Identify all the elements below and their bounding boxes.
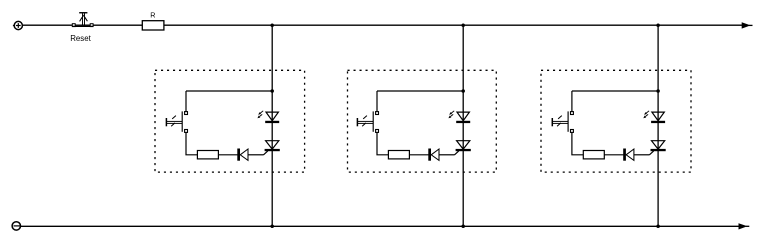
vertical rail 3 — [657, 25, 659, 226]
resistor R — [142, 21, 164, 30]
vertical rail 2 — [462, 25, 464, 226]
diode (cell 3 gate diode, cathode bar left) — [623, 149, 634, 161]
cell 2 enclosure (dotted box) — [348, 70, 497, 172]
wire: cell 2 SCR gate lead (diagonal) — [454, 151, 458, 155]
wire: cell 3 from button bottom terminal down and right to resistor — [572, 132, 583, 154]
cell 3 enclosure (dotted box) — [541, 70, 691, 172]
LED (cell 1, on rail) — [257, 111, 279, 123]
wire: cell 1 left vertical (to button top terminal) — [185, 91, 187, 112]
cell 1 enclosure (dotted box) — [155, 70, 305, 172]
wire: cell 1 top horizontal (button to rail) — [186, 90, 272, 92]
wire: cell 2 left vertical (to button top terminal) — [376, 91, 378, 112]
terminal + (positive supply) — [13, 21, 22, 29]
junction: top rail / rail 2 — [461, 23, 465, 27]
wire: cell 2 top horizontal (button to rail) — [377, 90, 463, 92]
junction: bottom rail / rail 2 — [461, 225, 465, 229]
wire: cell 3 top horizontal (button to rail) — [572, 90, 658, 92]
svg-text:R: R — [150, 10, 155, 19]
wire: cell 1 diode to SCR gate — [248, 154, 263, 156]
push-button S3 (cell 3) — [552, 111, 573, 132]
LED (cell 2, on rail) — [448, 111, 470, 123]
junction: top rail / rail 1 — [270, 23, 274, 27]
thyristor SCR (cell 1, on rail) — [265, 141, 280, 152]
push-button S1 (cell 1) — [166, 111, 187, 132]
vertical rail 1 — [271, 25, 273, 226]
wire: cell 2 diode to SCR gate — [439, 154, 454, 156]
diode (cell 2 gate diode, cathode bar left) — [428, 149, 439, 161]
thyristor SCR (cell 2, on rail) — [456, 141, 471, 152]
LED (cell 3, on rail) — [643, 111, 665, 123]
top rail wire — [22, 24, 742, 26]
push-button Reset — [72, 13, 93, 27]
resistor (cell 2 gate resistor) — [388, 151, 409, 159]
svg-text:Reset: Reset — [70, 34, 91, 43]
junction: bottom rail / rail 3 — [656, 225, 660, 229]
junction: cell 2 top wire to rail — [461, 89, 465, 93]
thyristor SCR (cell 3, on rail) — [651, 141, 666, 152]
wire: cell 1 SCR gate lead (diagonal) — [263, 151, 267, 155]
resistor (cell 1 gate resistor) — [197, 151, 218, 159]
junction: cell 1 top wire to rail — [270, 89, 274, 93]
wire: cell 3 diode to SCR gate — [634, 154, 649, 156]
wire: cell 3 left vertical (to button top terminal) — [571, 91, 573, 112]
terminal - (negative supply) — [12, 222, 20, 230]
wire: cell 3 resistor to diode — [604, 154, 624, 156]
push-button S2 (cell 2) — [357, 111, 378, 132]
wire: cell 3 SCR gate lead (diagonal) — [649, 151, 653, 155]
junction: cell 3 top wire to rail — [656, 89, 660, 93]
junction: top rail / rail 3 — [656, 23, 660, 27]
arrow: bottom rail output — [739, 223, 750, 229]
diode (cell 1 gate diode, cathode bar left) — [237, 149, 248, 161]
arrow: top rail output — [742, 22, 753, 28]
resistor (cell 3 gate resistor) — [583, 151, 604, 159]
wire: cell 2 from button bottom terminal down and right to resistor — [377, 132, 388, 154]
wire: cell 1 from button bottom terminal down and right to resistor — [186, 132, 197, 154]
wire: cell 1 resistor to diode — [218, 154, 238, 156]
wire: cell 2 resistor to diode — [409, 154, 429, 156]
bottom rail wire — [21, 225, 739, 227]
junction: bottom rail / rail 1 — [270, 225, 274, 229]
